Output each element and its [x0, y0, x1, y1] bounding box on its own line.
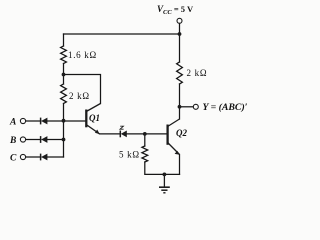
svg-text:Y = (ABC)′: Y = (ABC)′: [203, 102, 248, 113]
resistor R2 2k left body: [63, 75, 65, 85]
svg-text:Q1: Q1: [89, 113, 100, 123]
terminal output Y: [193, 104, 198, 109]
diode D2 row B: [41, 136, 48, 143]
wire Q2 emitter down: [179, 155, 181, 175]
svg-text:2 kΩ: 2 kΩ: [69, 91, 90, 101]
svg-text:5 kΩ: 5 kΩ: [119, 150, 140, 160]
svg-text:A: A: [9, 118, 16, 128]
resistor R4 5k body: [142, 146, 148, 162]
resistor R3 2k right body: [179, 34, 181, 62]
node 5k junction: [143, 132, 147, 136]
node Vcc junction: [178, 32, 182, 36]
node ground junction: [163, 173, 167, 177]
terminal Vcc: [177, 18, 182, 23]
wire input diode bus: [63, 121, 65, 158]
terminal input A: [20, 118, 25, 123]
node output junction: [178, 105, 182, 109]
wire node X to Q1 collector: [64, 75, 101, 104]
ground: [159, 174, 170, 192]
diode D4 between Q1 emitter and Q2 base: [120, 131, 127, 138]
svg-text:VCC = 5 V: VCC = 5 V: [157, 4, 194, 16]
node row B junction: [62, 138, 66, 142]
terminal input B: [20, 137, 25, 142]
node X junction below R1: [62, 73, 66, 77]
svg-text:C: C: [10, 154, 17, 164]
wire 5k top: [144, 134, 146, 146]
transistor Q2: [168, 119, 180, 155]
wire 5k bottom to ground rail: [145, 162, 180, 174]
svg-text:Q2: Q2: [176, 128, 187, 138]
wire Vcc stem: [179, 24, 181, 35]
diode D3 row C: [41, 154, 48, 161]
annotation squiggle above diode D4: [120, 126, 124, 129]
wire row A: [26, 120, 41, 122]
svg-text:B: B: [9, 136, 16, 146]
svg-text:1.6 kΩ: 1.6 kΩ: [68, 50, 97, 60]
node row A junction: [62, 119, 66, 123]
wire Q2 collector: [179, 107, 181, 119]
resistor R1 1.6k body: [63, 34, 65, 46]
wire Q1 emitter to diode D4: [100, 133, 121, 135]
svg-text:2 kΩ: 2 kΩ: [187, 68, 208, 78]
terminal input C: [20, 154, 25, 159]
wire row B: [26, 139, 41, 141]
wire diode D4 to Q2 base: [127, 133, 168, 135]
transistor Q1: [86, 104, 100, 135]
wire output to terminal: [180, 106, 194, 108]
diode D1 row A: [41, 118, 48, 125]
wire top horizontal from R1 top to Vcc: [64, 33, 180, 35]
wire row C: [26, 156, 41, 158]
